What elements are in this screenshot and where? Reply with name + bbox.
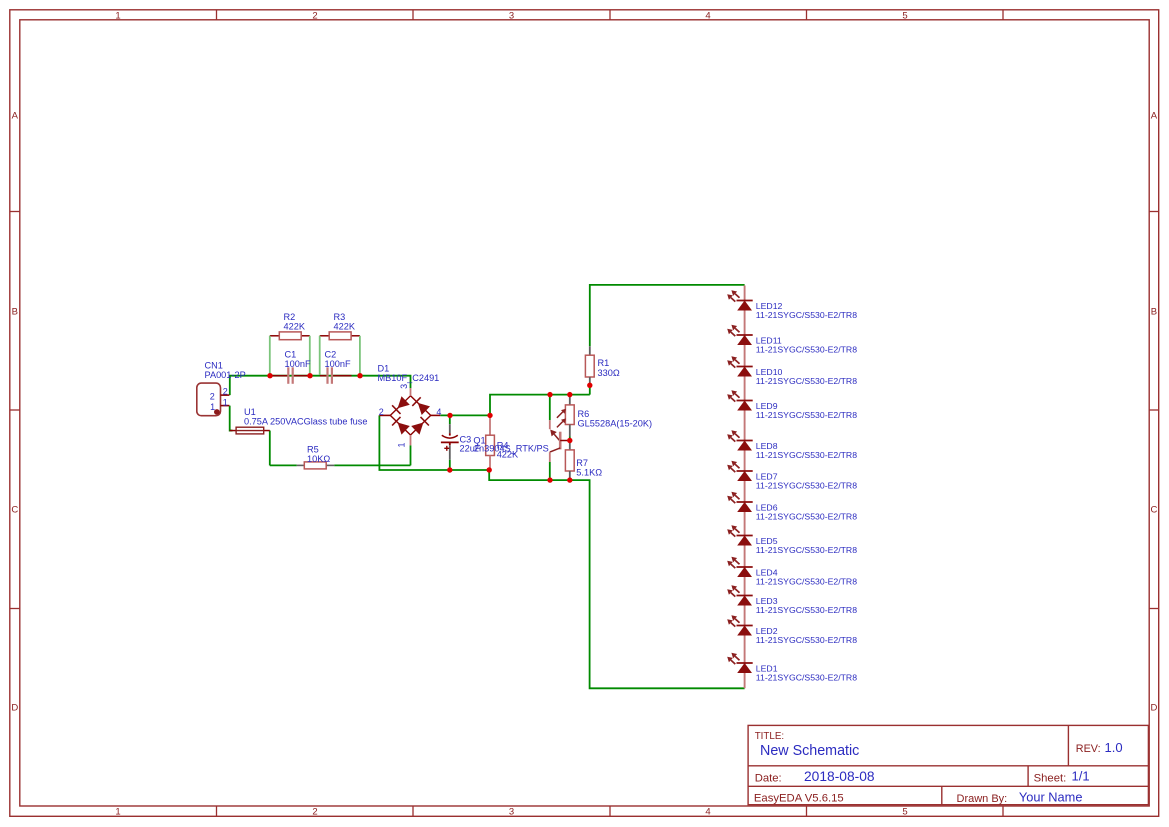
svg-text:B: B — [12, 307, 18, 318]
fuse U1 — [230, 430, 236, 432]
svg-text:1: 1 — [223, 398, 228, 408]
svg-text:C2: C2 — [325, 349, 337, 359]
Q1 collector — [550, 448, 560, 452]
svg-text:C1: C1 — [285, 349, 297, 359]
svg-text:2: 2 — [210, 392, 215, 402]
svg-text:330Ω: 330Ω — [598, 368, 620, 378]
svg-text:2n3904S_RTK/PS: 2n3904S_RTK/PS — [474, 444, 549, 454]
wire R2 right drop — [309, 336, 311, 375]
junction top rail 3 — [357, 373, 362, 378]
diode D1 top-right — [418, 403, 430, 415]
junction Q1 base — [567, 438, 572, 443]
svg-text:D: D — [1150, 703, 1157, 714]
svg-text:Sheet:: Sheet: — [1034, 772, 1067, 784]
photoresistor R6 — [569, 395, 571, 397]
svg-text:1: 1 — [115, 11, 120, 22]
wire up from pin4 rail — [490, 395, 590, 416]
junction top rail 1 — [267, 373, 272, 378]
svg-text:EasyEDA V5.6.15: EasyEDA V5.6.15 — [754, 793, 844, 805]
svg-text:2: 2 — [312, 11, 317, 22]
svg-text:10KΩ: 10KΩ — [307, 454, 330, 464]
Q1 emitter arrow — [554, 434, 560, 441]
svg-text:MB10F_C2491: MB10F_C2491 — [378, 373, 440, 383]
svg-text:422K: 422K — [334, 322, 356, 332]
svg-text:11-21SYGC/S530-E2/TR8: 11-21SYGC/S530-E2/TR8 — [756, 576, 857, 586]
LED LED8 — [737, 440, 753, 442]
bridge rectifier D1 — [390, 396, 430, 435]
svg-text:D1: D1 — [378, 363, 390, 373]
wire fuse to R5 — [269, 431, 271, 466]
svg-text:B: B — [1151, 307, 1157, 318]
svg-text:5.1KΩ: 5.1KΩ — [576, 468, 602, 478]
junction R4 top — [487, 413, 492, 418]
capacitor C3 — [449, 415, 451, 424]
resistor R1 — [589, 346, 591, 355]
svg-text:CN1: CN1 — [205, 360, 223, 370]
svg-text:11-21SYGC/S530-E2/TR8: 11-21SYGC/S530-E2/TR8 — [756, 480, 857, 490]
wire R3 left drop — [319, 336, 321, 375]
svg-text:A: A — [1151, 111, 1158, 122]
wire R3 right drop — [359, 336, 361, 375]
R6 arrow 2 — [557, 422, 563, 428]
svg-text:0.75A 250VACGlass tube fuse: 0.75A 250VACGlass tube fuse — [244, 417, 367, 427]
svg-text:422K: 422K — [284, 322, 306, 332]
resistor R5 — [297, 464, 305, 466]
wire top LED rail — [590, 285, 745, 395]
svg-text:4: 4 — [705, 11, 710, 22]
svg-text:2: 2 — [312, 807, 317, 818]
Q1 base bar — [559, 432, 562, 450]
svg-text:A: A — [12, 111, 19, 122]
svg-text:4: 4 — [436, 407, 441, 417]
R6 arrow 1 — [557, 412, 563, 418]
junction C3 bottom — [447, 467, 452, 472]
svg-text:R6: R6 — [578, 409, 590, 419]
svg-text:11-21SYGC/S530-E2/TR8: 11-21SYGC/S530-E2/TR8 — [756, 511, 857, 521]
svg-text:C: C — [1150, 505, 1157, 516]
LED LED5 — [737, 535, 753, 537]
svg-text:TITLE:: TITLE: — [755, 731, 784, 742]
svg-text:11-21SYGC/S530-E2/TR8: 11-21SYGC/S530-E2/TR8 — [756, 450, 857, 460]
wire top rail AC — [230, 376, 411, 395]
svg-text:Drawn By:: Drawn By: — [957, 793, 1008, 805]
svg-text:5: 5 — [902, 11, 907, 22]
diode D1 bottom-right — [411, 423, 423, 435]
svg-text:11-21SYGC/S530-E2/TR8: 11-21SYGC/S530-E2/TR8 — [756, 310, 857, 320]
svg-text:GL5528A(15-20K): GL5528A(15-20K) — [578, 419, 653, 429]
LED LED4 — [737, 566, 753, 568]
LED LED7 — [737, 470, 753, 472]
junction Q1 emitter rail — [547, 392, 552, 397]
svg-text:New Schematic: New Schematic — [760, 743, 859, 759]
LED LED9 — [737, 400, 753, 402]
svg-text:11-21SYGC/S530-E2/TR8: 11-21SYGC/S530-E2/TR8 — [756, 410, 857, 420]
svg-text:1: 1 — [115, 807, 120, 818]
bridge D1 pins — [410, 388, 412, 396]
wire R2 left drop — [269, 336, 271, 375]
wire LED chain vertical — [744, 286, 746, 689]
resistor R3 — [320, 335, 330, 337]
LED LED2 — [737, 625, 753, 627]
connector CN1 box — [197, 383, 221, 416]
svg-text:100nF: 100nF — [325, 359, 351, 369]
svg-text:U1: U1 — [244, 407, 256, 417]
svg-text:5: 5 — [902, 807, 907, 818]
capacitor C1 — [272, 375, 288, 377]
svg-text:11-21SYGC/S530-E2/TR8: 11-21SYGC/S530-E2/TR8 — [756, 344, 857, 354]
junction R7 bottom — [567, 477, 572, 482]
svg-text:3: 3 — [399, 384, 409, 389]
svg-text:11-21SYGC/S530-E2/TR8: 11-21SYGC/S530-E2/TR8 — [756, 376, 857, 386]
svg-text:R3: R3 — [334, 312, 346, 322]
svg-text:1.0: 1.0 — [1105, 740, 1123, 755]
LED LED11 — [737, 334, 753, 336]
resistor R4 — [489, 415, 491, 435]
diode D1 top-left — [398, 396, 410, 408]
svg-text:2: 2 — [379, 407, 384, 417]
diode D1 bottom-left — [398, 423, 410, 435]
svg-text:REV:: REV: — [1076, 743, 1101, 755]
svg-text:Date:: Date: — [755, 772, 782, 784]
junction R6 top — [567, 392, 572, 397]
svg-text:11-21SYGC/S530-E2/TR8: 11-21SYGC/S530-E2/TR8 — [756, 545, 857, 555]
resistor R7 — [569, 441, 571, 450]
wire lower rail step — [489, 470, 744, 688]
junction R4 bottom — [487, 467, 492, 472]
svg-text:11-21SYGC/S530-E2/TR8: 11-21SYGC/S530-E2/TR8 — [756, 635, 857, 645]
wire bridge pin2 down and right — [379, 415, 489, 470]
transistor Q1 — [549, 395, 551, 421]
svg-text:3: 3 — [509, 807, 514, 818]
svg-text:2018-08-08: 2018-08-08 — [804, 769, 875, 784]
svg-text:C: C — [11, 505, 18, 516]
wire R5 rail to bridge pin1 — [270, 464, 297, 466]
LED LED3 — [737, 595, 753, 597]
svg-text:2: 2 — [223, 386, 228, 396]
svg-text:D: D — [11, 703, 18, 714]
resistor R2 — [270, 335, 280, 337]
svg-text:R2: R2 — [284, 312, 296, 322]
connector CN1 pin1 marker dot — [214, 409, 220, 415]
svg-text:1/1: 1/1 — [1072, 769, 1090, 784]
junction C3 top — [447, 413, 452, 418]
svg-text:3: 3 — [509, 11, 514, 22]
capacitor C2 — [320, 375, 327, 377]
Q1 base lead — [560, 440, 570, 442]
svg-text:1: 1 — [396, 442, 406, 447]
wire CN1 pin1 to fuse — [230, 406, 233, 431]
LED LED12 — [737, 300, 753, 302]
LED LED10 — [737, 366, 753, 368]
svg-text:11-21SYGC/S530-E2/TR8: 11-21SYGC/S530-E2/TR8 — [756, 605, 857, 615]
svg-text:R7: R7 — [576, 458, 588, 468]
wire bridge pin4 rail — [440, 414, 490, 416]
junction Q1 collector rail — [547, 477, 552, 482]
LED LED1 — [737, 662, 753, 664]
svg-text:PA001-2P: PA001-2P — [205, 370, 246, 380]
svg-text:R1: R1 — [598, 358, 610, 368]
svg-text:100nF: 100nF — [285, 359, 311, 369]
svg-text:1: 1 — [210, 402, 215, 412]
LED LED6 — [737, 501, 753, 503]
title block — [748, 725, 1148, 804]
svg-text:R5: R5 — [307, 444, 319, 454]
svg-text:4: 4 — [705, 807, 710, 818]
svg-text:Your Name: Your Name — [1019, 790, 1083, 805]
C3 plus sign — [444, 447, 449, 449]
junction R1 bottom — [587, 383, 592, 388]
connector CN1 pin 1 stub — [221, 405, 230, 407]
connector CN1 pin 2 stub — [221, 394, 230, 396]
junction top rail 2 — [307, 373, 312, 378]
svg-text:11-21SYGC/S530-E2/TR8: 11-21SYGC/S530-E2/TR8 — [756, 672, 857, 682]
